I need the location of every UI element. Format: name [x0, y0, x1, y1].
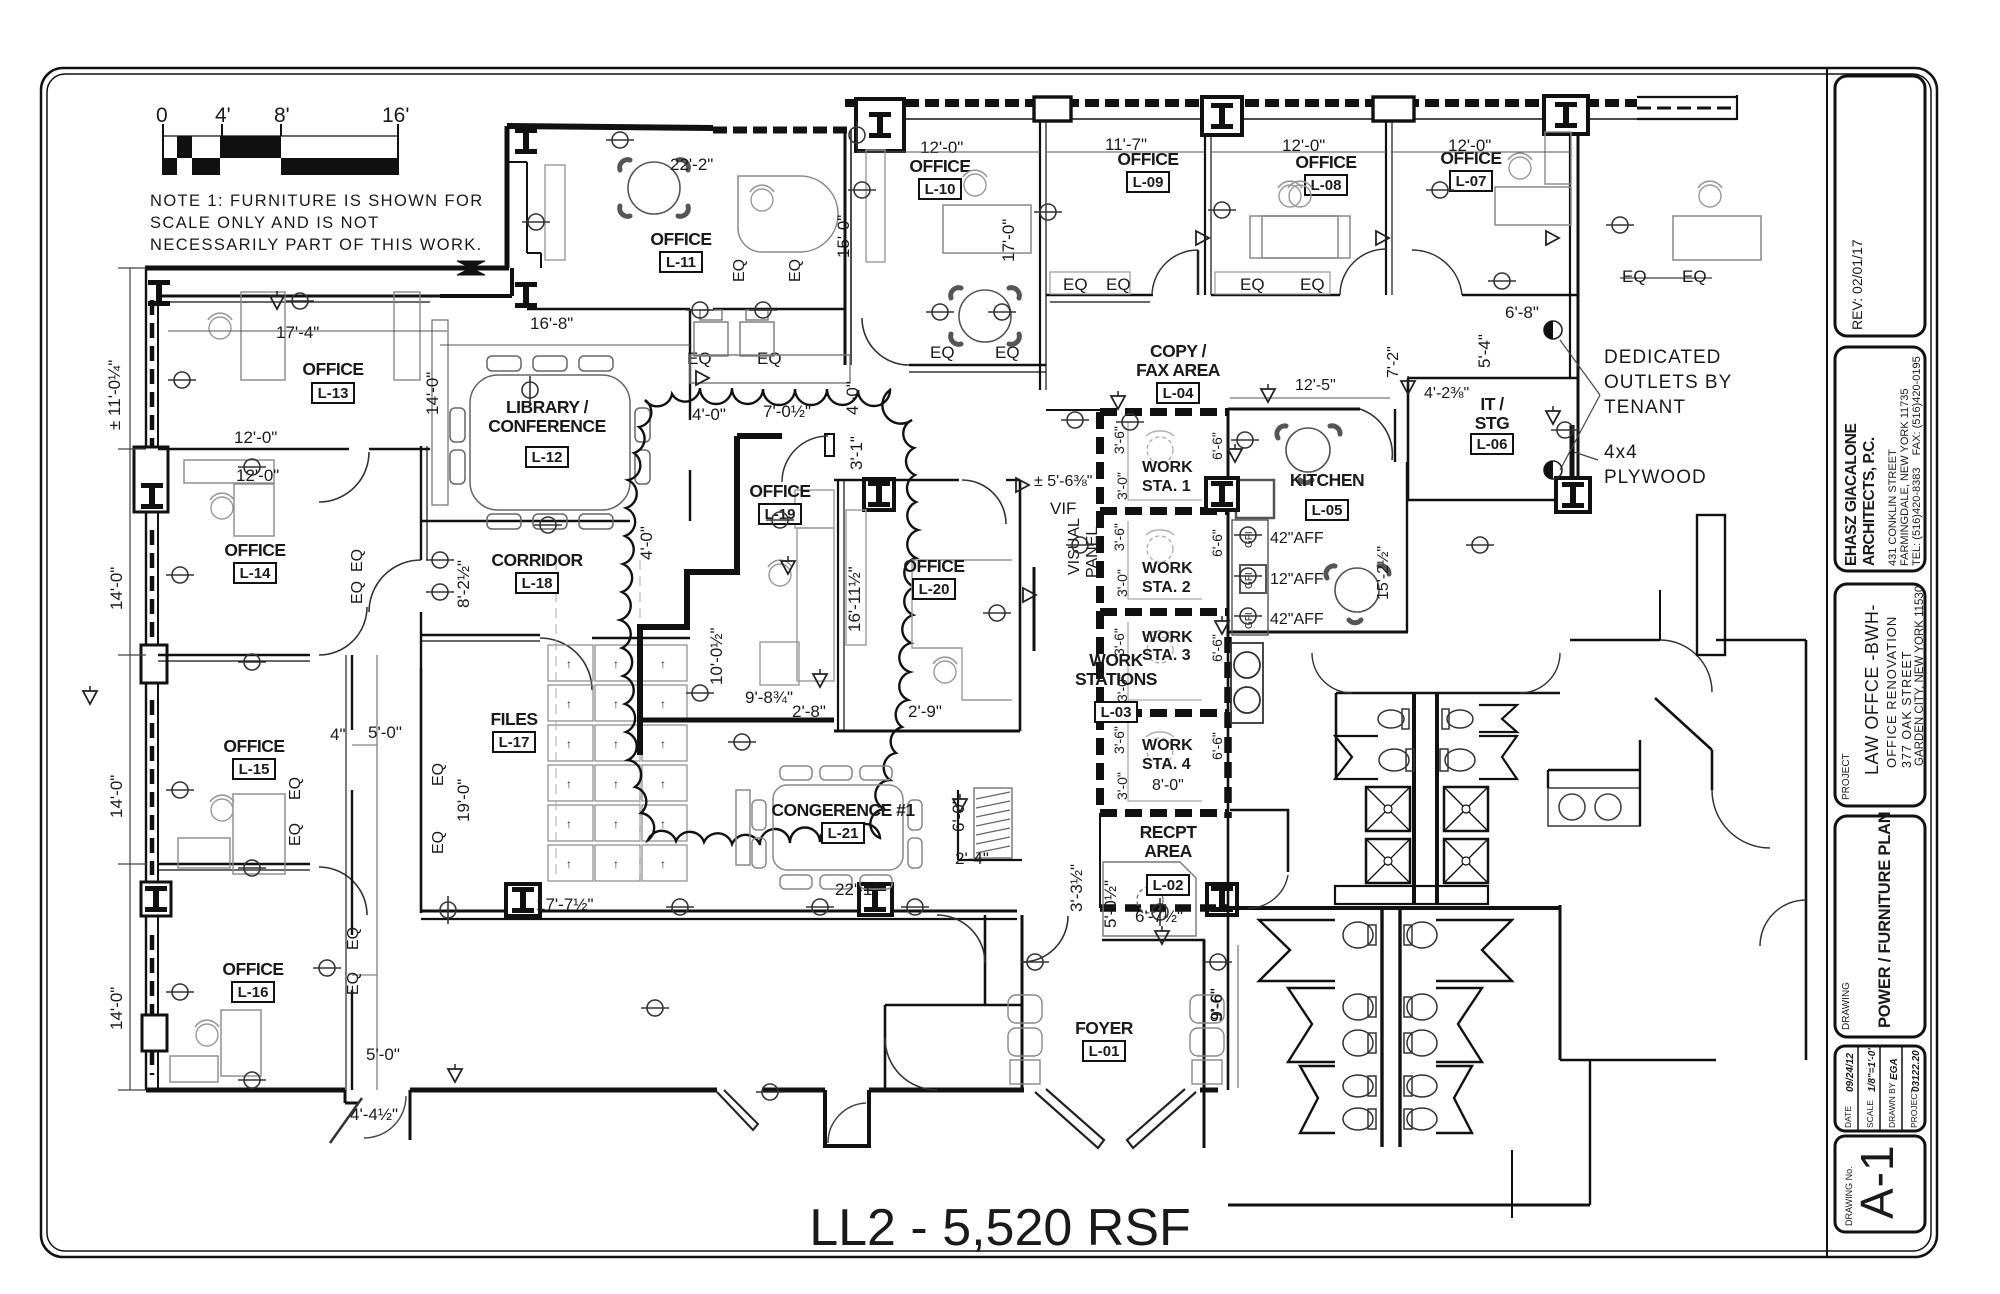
door arc small room — [940, 915, 988, 963]
svg-text:LIBRARY /: LIBRARY / — [506, 397, 589, 417]
svg-text:3'-6": 3'-6" — [1111, 726, 1127, 754]
wall L-20 top — [834, 479, 959, 481]
svg-text:GFI: GFI — [1244, 612, 1255, 629]
svg-text:↑: ↑ — [566, 777, 572, 791]
cabinet L-11 — [545, 165, 565, 260]
svg-text:↑: ↑ — [613, 657, 619, 671]
door arc L-15 — [319, 607, 367, 655]
svg-text:6'-0": 6'-0" — [949, 798, 968, 832]
reception desk — [1103, 862, 1196, 936]
shelf L-11 low — [690, 355, 850, 383]
wall conference left x421 — [420, 668, 423, 913]
svg-text:14'-0": 14'-0" — [423, 372, 442, 415]
desk L-16 — [221, 1010, 261, 1076]
svg-text:COPY /: COPY / — [1150, 341, 1207, 361]
desk L-09 — [1262, 216, 1350, 258]
svg-text:STG: STG — [1475, 413, 1509, 433]
svg-text:OFFICE: OFFICE — [224, 540, 285, 560]
svg-text:09/24/12: 09/24/12 — [1845, 1053, 1856, 1092]
svg-text:9'-8¾": 9'-8¾" — [745, 688, 793, 707]
svg-text:5'-4": 5'-4" — [1475, 334, 1494, 368]
svg-text:L-05: L-05 — [1312, 502, 1343, 519]
svg-text:L-21: L-21 — [828, 825, 859, 842]
svg-text:POWER / FURNITURE PLAN: POWER / FURNITURE PLAN — [1876, 811, 1894, 1028]
svg-text:OFFICE: OFFICE — [749, 481, 810, 501]
column recpt/foyer — [1207, 884, 1237, 915]
svg-text:FAX AREA: FAX AREA — [1136, 360, 1221, 380]
svg-text:6'-6": 6'-6" — [1209, 634, 1225, 662]
desk L-20 shelving — [846, 510, 1012, 700]
svg-text:12'-0": 12'-0" — [236, 466, 279, 485]
svg-text:4'-0": 4'-0" — [843, 381, 862, 415]
svg-text:17'-0": 17'-0" — [999, 219, 1018, 262]
elevators — [1366, 787, 1410, 831]
svg-text:SCALE ONLY AND IS NOT: SCALE ONLY AND IS NOT — [150, 214, 380, 232]
svg-text:NOTE 1: FURNITURE IS SHOWN FOR: NOTE 1: FURNITURE IS SHOWN FOR — [150, 192, 484, 210]
data triangles — [270, 291, 284, 309]
svg-text:FOYER: FOYER — [1075, 1018, 1134, 1038]
column left wall 1 — [134, 447, 168, 512]
room label FILES L-17 — [490, 709, 537, 752]
room label RECPT|AREA L-02 — [1140, 822, 1198, 895]
svg-text:2'-8": 2'-8" — [792, 702, 826, 721]
svg-text:CONFERENCE: CONFERENCE — [488, 416, 606, 436]
svg-text:4x4: 4x4 — [1604, 442, 1638, 463]
wall corner room left of elevators — [1230, 810, 1288, 872]
svg-text:03122.20: 03122.20 — [1911, 1050, 1922, 1092]
svg-text:EQ: EQ — [1240, 275, 1265, 294]
desk L-11 P-shape — [738, 176, 838, 252]
svg-text:↑: ↑ — [660, 697, 666, 711]
room label OFFICE L-20 — [903, 556, 964, 599]
column left wall 2 — [141, 645, 167, 683]
svg-text:DEDICATED: DEDICATED — [1604, 347, 1721, 368]
svg-text:↑: ↑ — [613, 697, 619, 711]
svg-text:L-13: L-13 — [318, 385, 349, 402]
wall right of L-14 x421 — [420, 446, 422, 560]
wall L-09/L-08 partition — [1204, 135, 1206, 295]
vertical outlet symbols — [849, 121, 865, 149]
svg-text:↑: ↑ — [566, 697, 572, 711]
column I below jog — [515, 282, 537, 308]
note text 4x4 plywood — [1604, 442, 1707, 488]
door stub L-19 — [825, 434, 834, 456]
svg-text:4'-0": 4'-0" — [692, 405, 726, 424]
lower restroom center partition — [1382, 908, 1400, 1147]
door arc L-14 — [319, 452, 369, 502]
svg-text:9'-6": 9'-6" — [1207, 988, 1226, 1022]
svg-text:OFFICE: OFFICE — [223, 736, 284, 756]
svg-text:17'-7½": 17'-7½" — [536, 895, 593, 914]
work stations dashed heavy walls — [1100, 412, 1228, 813]
note — [150, 192, 484, 254]
svg-text:5'-0½": 5'-0½" — [1101, 880, 1120, 928]
EQ rotated labels left — [287, 259, 804, 995]
door arc kitchen — [1360, 409, 1392, 460]
svg-text:8'-0": 8'-0" — [1152, 777, 1184, 794]
svg-text:12'-5": 12'-5" — [1295, 377, 1336, 394]
svg-text:PLYWOOD: PLYWOOD — [1604, 467, 1707, 488]
wall L-20 right — [1019, 480, 1022, 731]
svg-text:WORK: WORK — [1142, 560, 1193, 577]
room label OFFICE L-15 — [223, 736, 284, 779]
kitchen walls — [1228, 409, 1408, 637]
copy machines right of library — [694, 310, 774, 356]
table L-10 — [951, 288, 1020, 345]
desk L-19 — [760, 490, 834, 685]
svg-text:L-12: L-12 — [532, 449, 563, 466]
svg-text:FARMINGDALE, NEW YORK 11735: FARMINGDALE, NEW YORK 11735 — [1899, 389, 1911, 566]
svg-text:14'-0": 14'-0" — [107, 987, 126, 1030]
svg-text:L-15: L-15 — [239, 761, 270, 778]
svg-text:WORK: WORK — [1142, 737, 1193, 754]
wall building bottom — [146, 1090, 1218, 1146]
IT room walls — [1408, 378, 1578, 500]
desk L-14 — [234, 484, 274, 536]
svg-text:22'-1": 22'-1" — [835, 880, 878, 899]
svg-text:RECPT: RECPT — [1140, 822, 1198, 842]
wall jog to L-13 top — [440, 268, 512, 296]
svg-text:EQ: EQ — [757, 349, 782, 368]
svg-text:L-16: L-16 — [238, 984, 269, 1001]
svg-text:DRAWN BY: DRAWN BY — [1887, 1082, 1897, 1128]
wall L-10/L-09 partition — [1039, 121, 1041, 390]
svg-text:15'-0": 15'-0" — [834, 215, 853, 258]
svg-text:EQ: EQ — [349, 581, 366, 604]
svg-text:3'-1": 3'-1" — [847, 436, 866, 470]
visual panel — [1033, 567, 1036, 651]
svg-text:EQ: EQ — [1300, 275, 1325, 294]
svg-text:TENANT: TENANT — [1604, 397, 1686, 418]
svg-text:OUTLETS BY: OUTLETS BY — [1604, 372, 1732, 393]
room label COPY /|FAX AREA L-04 — [1136, 341, 1221, 403]
svg-text:EQ: EQ — [1063, 275, 1088, 294]
wall files top y635 — [421, 634, 540, 636]
plan — [83, 95, 1806, 1218]
wall L-19 left heavy — [640, 436, 737, 755]
svg-text:1/8"=1'-0": 1/8"=1'-0" — [1867, 1046, 1878, 1092]
svg-text:7'-2": 7'-2" — [1385, 346, 1402, 378]
column top wall C — [1202, 97, 1242, 135]
svg-text:OFFICE: OFFICE — [302, 359, 363, 379]
work station 4 desk — [1128, 723, 1202, 801]
dim lines top — [168, 152, 1570, 345]
column left wall top I — [148, 280, 170, 306]
svg-text:L-08: L-08 — [1311, 177, 1342, 194]
svg-text:↑: ↑ — [660, 657, 666, 671]
svg-text:OFFICE: OFFICE — [909, 156, 970, 176]
sill below elevators — [1335, 886, 1488, 904]
svg-text:3'-6": 3'-6" — [1111, 426, 1127, 454]
svg-text:CONGERENCE #1: CONGERENCE #1 — [771, 800, 915, 820]
svg-text:↑: ↑ — [566, 857, 572, 871]
library table — [450, 356, 650, 529]
wall L-20 bottom — [834, 730, 1020, 733]
wall L-20 right top piece — [1006, 479, 1020, 481]
wall x421 lower corridor leg — [420, 612, 422, 668]
wall conference bottom double — [421, 910, 1017, 913]
svg-text:SCALE: SCALE — [1865, 1100, 1875, 1128]
svg-text:CORRIDOR: CORRIDOR — [491, 550, 583, 570]
room label OFFICE L-09 — [1117, 149, 1178, 192]
svg-text:DRAWING: DRAWING — [1841, 982, 1852, 1030]
table L-11 — [620, 160, 689, 217]
svg-text:EGA: EGA — [1889, 1058, 1900, 1080]
core upper walls — [1228, 637, 1806, 1205]
svg-text:15'-2½": 15'-2½" — [1375, 546, 1392, 600]
svg-text:L-11: L-11 — [666, 254, 696, 271]
svg-text:5'-0": 5'-0" — [368, 723, 402, 742]
svg-text:TEL: (516)420-8383 FAX: (51: TEL: (516)420-8383 FAX: (516)420-0195 — [1911, 356, 1923, 566]
room label OFFICE L-13 — [302, 359, 363, 403]
svg-text:↑: ↑ — [660, 817, 666, 831]
wall right exterior x1578 — [1569, 134, 1571, 378]
svg-text:4'-4½": 4'-4½" — [350, 1105, 398, 1124]
svg-text:EQ: EQ — [349, 549, 366, 572]
svg-text:ARCHITECTS, P.C.: ARCHITECTS, P.C. — [1861, 437, 1878, 566]
desk L-15 — [233, 794, 285, 874]
door arc L-10 — [862, 318, 909, 365]
half circle outlets right wall — [1544, 321, 1562, 339]
column top wall A — [856, 99, 904, 151]
svg-text:↑: ↑ — [660, 737, 666, 751]
svg-text:14'-0": 14'-0" — [107, 567, 126, 610]
svg-text:L-20: L-20 — [919, 581, 950, 598]
work station 3 desk — [1128, 622, 1202, 700]
svg-text:0: 0 — [156, 104, 168, 127]
svg-text:↑: ↑ — [566, 817, 572, 831]
door arc vestibule — [828, 1103, 866, 1143]
svg-text:L-17: L-17 — [499, 734, 530, 751]
svg-text:EQ: EQ — [287, 823, 304, 846]
door arc L-14 entry — [369, 560, 421, 612]
room label OFFICE L-16 — [222, 959, 283, 1002]
door arc L-20 — [962, 480, 1006, 524]
svg-text:4': 4' — [215, 104, 231, 127]
door arc IT — [1408, 378, 1450, 420]
svg-text:WORK: WORK — [1142, 629, 1193, 646]
svg-text:STA. 3: STA. 3 — [1142, 647, 1191, 664]
svg-text:AREA: AREA — [1144, 841, 1192, 861]
note text dedicated outlets — [1604, 347, 1732, 418]
plywood panel — [1570, 425, 1575, 478]
svg-text:REV: 02/01/17: REV: 02/01/17 — [1849, 239, 1865, 330]
sinks counter right — [1548, 788, 1640, 826]
svg-text:EQ: EQ — [430, 763, 447, 786]
wall L-11 top — [507, 126, 713, 128]
svg-text:17'-4": 17'-4" — [276, 323, 319, 342]
work station small dims — [1111, 426, 1225, 800]
scale bar — [156, 104, 409, 175]
svg-text:↑: ↑ — [566, 657, 572, 671]
svg-text:4'-2⅜": 4'-2⅜" — [1424, 385, 1469, 402]
svg-text:STATIONS: STATIONS — [1075, 669, 1157, 689]
svg-text:EQ: EQ — [430, 831, 447, 854]
svg-text:PANEL: PANEL — [1084, 527, 1101, 578]
entry double doors — [1035, 1089, 1196, 1148]
svg-text:IT /: IT / — [1480, 394, 1504, 414]
visual panel labels — [1066, 518, 1101, 578]
svg-text:± 5'-6⅜": ± 5'-6⅜" — [1034, 473, 1092, 490]
room label CONGERENCE #1 L-21 — [771, 800, 915, 843]
files cabinets grid — [548, 645, 687, 881]
wall note area horizontal — [145, 266, 509, 271]
svg-text:L-10: L-10 — [925, 181, 956, 198]
svg-text:KITCHEN: KITCHEN — [1290, 470, 1364, 490]
outlet symbols — [166, 132, 1634, 1100]
svg-text:NECESSARILY PART OF THIS WORK.: NECESSARILY PART OF THIS WORK. — [150, 236, 483, 254]
upper stall partitions — [1335, 705, 1517, 779]
desk L-10 — [943, 205, 1031, 253]
title block strip — [1827, 68, 1926, 1257]
column conf wall B — [859, 884, 892, 915]
column L-19/L-20 — [864, 479, 894, 510]
wall L-11 bottom / L-12 top — [527, 308, 690, 310]
svg-text:19'-0": 19'-0" — [454, 779, 473, 822]
work station 2 desk — [1128, 521, 1202, 599]
door arc small room — [1242, 872, 1288, 918]
upper toilets — [1378, 709, 1475, 771]
svg-text:L-04: L-04 — [1163, 385, 1195, 402]
conference table — [736, 766, 922, 889]
svg-text:PROJECT: PROJECT — [1841, 753, 1852, 800]
dim left vertical line — [118, 268, 146, 1090]
column left wall 3 — [141, 882, 171, 916]
svg-text:OFFICE: OFFICE — [650, 229, 711, 249]
room label LIBRARY /|CONFERENCE L-12 — [488, 397, 606, 467]
svg-text:3'-6": 3'-6" — [1111, 523, 1127, 551]
wall L-19 bottom — [642, 718, 834, 723]
desk L-13 — [241, 292, 285, 380]
twin round sinks upper left — [1231, 643, 1263, 723]
svg-text:8': 8' — [274, 104, 290, 127]
kitchen AFF labels — [1270, 530, 1324, 628]
room label OFFICE L-11 — [650, 229, 711, 272]
svg-text:EQ: EQ — [1106, 275, 1131, 294]
svg-text:FILES: FILES — [490, 709, 537, 729]
svg-text:22'-2": 22'-2" — [670, 155, 713, 174]
room label OFFICE L-14 — [224, 540, 285, 583]
svg-text:STA. 4: STA. 4 — [1142, 756, 1191, 773]
svg-text:EHASZ GIACALONE: EHASZ GIACALONE — [1843, 424, 1860, 567]
wall L-10 bottom y390 — [909, 364, 1046, 366]
narrow shaft rect right — [1697, 515, 1725, 655]
leaders to notes — [1560, 340, 1600, 470]
svg-text:4'-0": 4'-0" — [637, 526, 656, 560]
lower toilets — [1343, 922, 1437, 1130]
svg-text:LAW OFFCE -BWH-: LAW OFFCE -BWH- — [1862, 604, 1882, 775]
svg-text:↑: ↑ — [660, 777, 666, 791]
svg-text:42"AFF: 42"AFF — [1270, 530, 1324, 547]
svg-text:PROJECT: PROJECT — [1909, 1088, 1919, 1128]
svg-text:± 11'-0¼": ± 11'-0¼" — [105, 360, 124, 430]
kitchen tables — [1277, 426, 1340, 483]
svg-text:WORK: WORK — [1142, 459, 1193, 476]
wall L-10 left (x845) — [844, 130, 847, 365]
foyer chairs left — [1008, 995, 1224, 1084]
svg-text:WORK: WORK — [1089, 650, 1143, 670]
wall left vertical of L-11 — [507, 126, 541, 268]
svg-text:6'-6": 6'-6" — [1209, 732, 1225, 760]
svg-text:EQ: EQ — [930, 343, 955, 362]
dimension texts — [234, 135, 1539, 1124]
svg-text:↑: ↑ — [566, 737, 572, 751]
DATE table — [1858, 1046, 1902, 1131]
svg-text:GARDEN CITY, NEW YORK 11530: GARDEN CITY, NEW YORK 11530 — [1914, 586, 1926, 766]
svg-text:OFFICE: OFFICE — [1295, 152, 1356, 172]
svg-text:↑: ↑ — [613, 777, 619, 791]
svg-text:OFFICE RENOVATION: OFFICE RENOVATION — [1884, 616, 1899, 768]
svg-text:GFI: GFI — [1244, 531, 1255, 548]
svg-text:L-02: L-02 — [1153, 877, 1184, 894]
lower stall partitions — [1259, 920, 1512, 1133]
svg-text:L-09: L-09 — [1133, 174, 1164, 191]
column kitchen left — [1206, 478, 1238, 510]
wall right of L-15/L-16 x352 — [351, 655, 353, 730]
wire top dashed exterior wall — [845, 95, 1737, 120]
room label OFFICE L-07 — [1440, 148, 1501, 191]
stair shaft center walls — [1414, 693, 1437, 905]
svg-text:10'-0½": 10'-0½" — [707, 628, 726, 685]
svg-text:12'-0": 12'-0" — [234, 428, 277, 447]
wall L-12 right x690 — [689, 309, 691, 420]
wall corridor top y521 — [421, 520, 630, 522]
svg-text:↑: ↑ — [613, 737, 619, 751]
svg-text:L-03: L-03 — [1101, 704, 1132, 721]
walls right of conference — [885, 915, 1022, 1090]
svg-text:6'-6": 6'-6" — [1209, 432, 1225, 460]
svg-text:EQ: EQ — [287, 777, 304, 800]
door arc L-19 — [782, 436, 828, 482]
room label OFFICE L-19 — [749, 481, 810, 524]
svg-text:EQ: EQ — [1682, 267, 1707, 286]
core right rooms — [1655, 698, 1712, 750]
svg-text:7'-0½": 7'-0½" — [763, 402, 811, 421]
svg-text:EQ: EQ — [1622, 267, 1647, 286]
svg-text:↑: ↑ — [660, 857, 666, 871]
svg-text:6'-6": 6'-6" — [1209, 529, 1225, 557]
svg-text:OFFICE: OFFICE — [903, 556, 964, 576]
room label OFFICE L-10 — [909, 156, 970, 199]
column bowtie on note wall — [457, 261, 485, 275]
column conf bottom — [506, 884, 540, 916]
svg-text:STA. 1: STA. 1 — [1142, 478, 1191, 495]
wall L-09 bottom — [1046, 294, 1153, 296]
svg-text:L-14: L-14 — [240, 565, 272, 582]
svg-text:3'-3½": 3'-3½" — [1067, 864, 1086, 912]
room label KITCHEN L-05 — [1290, 470, 1364, 520]
wall L-14/L-15 divider y655 — [158, 654, 310, 657]
svg-text:↑: ↑ — [613, 817, 619, 831]
svg-text:EQ: EQ — [345, 972, 362, 995]
foyer left wall — [1021, 915, 1024, 1090]
door angled at bottom wall — [330, 1098, 362, 1143]
library shelves left — [432, 320, 448, 505]
room label CORRIDOR L-18 — [491, 550, 583, 593]
svg-text:GFI: GFI — [1244, 572, 1255, 589]
svg-text:16': 16' — [382, 104, 409, 127]
svg-text:LL2 - 5,520 RSF: LL2 - 5,520 RSF — [809, 1199, 1191, 1257]
svg-text:VIF: VIF — [1050, 499, 1076, 518]
svg-text:↑: ↑ — [613, 857, 619, 871]
svg-text:3'-0": 3'-0" — [1114, 569, 1130, 597]
svg-text:4": 4" — [330, 725, 346, 744]
desk L-08 — [1250, 216, 1338, 258]
dim EQ row L-11 — [687, 267, 1707, 368]
door arc files — [540, 638, 592, 690]
svg-text:3'-0": 3'-0" — [1114, 772, 1130, 800]
room label IT /|STG L-06 — [1471, 394, 1513, 454]
